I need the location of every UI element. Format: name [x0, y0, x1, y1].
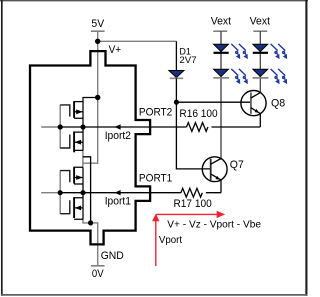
svg-text:PORT2: PORT2 — [139, 106, 172, 118]
Iport2 arrowhead — [115, 124, 121, 129]
svg-text:Vport: Vport — [159, 235, 182, 246]
node 5V junction — [95, 39, 100, 44]
svg-text:Q7: Q7 — [230, 159, 244, 171]
wire NMOS1 to GND staircase — [83, 157, 91, 223]
0V bar — [91, 265, 105, 267]
LED D_b2 — [253, 69, 269, 78]
wire gate bus pair2 — [41, 170, 60, 214]
transistor Q7 — [202, 157, 227, 182]
svg-text:Q8: Q8 — [271, 98, 285, 110]
PMOS M3 stubs — [74, 167, 83, 184]
NMOS M2 gate — [60, 135, 70, 149]
NMOS M2 arrow — [75, 140, 82, 145]
svg-text:Iport2: Iport2 — [105, 130, 131, 142]
node GND junction — [88, 220, 93, 225]
red annotation arrows — [156, 214, 217, 266]
light rays LED D_a1 — [231, 44, 247, 59]
LED D_a1 — [214, 44, 229, 53]
node PMOS1 drain on rail — [95, 95, 100, 100]
wire NMOS2 source elbow — [83, 219, 91, 223]
NMOS M2 channel — [73, 131, 75, 152]
5V supply bar — [91, 30, 105, 32]
node gate pair2 — [58, 190, 63, 195]
wire 5V node to D1 anode — [98, 40, 177, 42]
light rays LED D_b2 — [271, 69, 287, 84]
wire gate bus pair1 — [41, 105, 60, 149]
light rays LED D_a2 — [231, 69, 247, 84]
wire D1 anode — [175, 41, 177, 70]
PMOS M1 channel — [73, 101, 75, 118]
NMOS M2 stubs — [74, 132, 83, 150]
wire LED column 2 — [259, 31, 261, 92]
junction dots — [58, 39, 179, 226]
svg-text:GND: GND — [101, 250, 124, 262]
Iport1 arrowhead — [115, 190, 121, 195]
wire Q8 base — [176, 101, 251, 103]
wire GND junction to 0V — [91, 223, 98, 266]
PMOS M3 arrow — [76, 175, 83, 180]
wire D1 cathode down to Q7 base — [176, 78, 210, 169]
wire V+ rail — [83, 41, 98, 163]
svg-text:V+: V+ — [109, 44, 122, 56]
resistor R16 — [187, 123, 208, 132]
NMOS M4 arrow — [75, 206, 82, 211]
svg-text:R16 100: R16 100 — [179, 108, 217, 120]
node output pair1 — [80, 124, 85, 129]
NMOS M4 stubs — [74, 198, 83, 220]
Vext supply bar 1 — [213, 30, 227, 32]
resistor R17 — [181, 188, 202, 197]
node D1 junction — [174, 100, 179, 105]
LED D_b1 — [253, 44, 268, 53]
wire PORT2 line — [60, 114, 260, 127]
block outline — [30, 51, 150, 244]
NMOS M2 right vertical — [82, 127, 84, 150]
LED D_a2 — [213, 69, 229, 78]
node gate pair1 — [58, 124, 63, 129]
node output pair2 — [80, 190, 85, 195]
svg-text:0V: 0V — [92, 268, 104, 280]
NMOS M4 right vertical — [82, 193, 84, 220]
svg-text:V+ - Vz - Vport - Vbe: V+ - Vz - Vport - Vbe — [167, 219, 261, 230]
PMOS M1 right vertical + drain to rail — [83, 98, 98, 128]
svg-text:Vext: Vext — [250, 16, 270, 28]
zener D1 — [169, 71, 184, 79]
PMOS M1 stubs — [74, 102, 83, 119]
PMOS M1 arrow — [76, 109, 83, 114]
PMOS M3 channel — [73, 167, 75, 184]
Vext supply bar 2 — [253, 30, 267, 32]
PMOS M3 gate — [60, 171, 70, 183]
svg-text:2V7: 2V7 — [179, 55, 196, 65]
wire 5V stem — [97, 31, 99, 41]
NMOS M4 channel — [73, 197, 75, 218]
PMOS M3 right vertical — [82, 167, 84, 192]
svg-text:5V: 5V — [91, 18, 104, 30]
wire LED column 1 — [220, 31, 222, 158]
light rays LED D_b1 — [271, 44, 287, 59]
svg-text:PORT1: PORT1 — [139, 172, 172, 184]
NMOS M4 gate — [60, 200, 70, 214]
Q7 emitter arrow — [215, 176, 219, 180]
wire NMOS1 source to rail L — [82, 150, 84, 166]
wire PORT1 line — [60, 180, 221, 193]
transistor Q8 — [241, 91, 266, 116]
svg-text:Vext: Vext — [211, 16, 231, 28]
svg-text:Iport1: Iport1 — [105, 196, 131, 208]
svg-text:R17 100: R17 100 — [174, 198, 212, 210]
Q8 emitter arrow — [255, 109, 260, 113]
PMOS M1 gate — [60, 105, 70, 117]
